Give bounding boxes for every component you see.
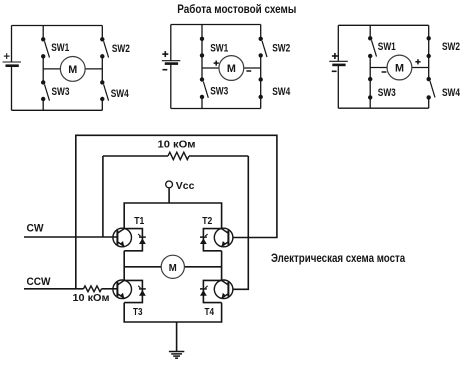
diode D3 (T3 flyback) — [124, 280, 142, 302]
wire branch bridge B left — [201, 25, 203, 39]
svg-text:M: M — [227, 63, 236, 75]
svg-text:CCW: CCW — [27, 276, 52, 288]
wire bottom rail bridge C — [338, 107, 428, 109]
wire branch bridge C right — [428, 25, 430, 38]
wire inner loop top right segment — [189, 155, 248, 157]
svg-text:SW3: SW3 — [210, 86, 228, 98]
svg-text:T1: T1 — [134, 215, 144, 227]
switch SW1 bridge A — [41, 37, 45, 41]
wire branch bridge A left — [42, 26, 44, 40]
diode D1 (T1 flyback) — [124, 229, 142, 251]
wire left column T1 emitter to T3 collector — [123, 251, 125, 281]
svg-text:SW4: SW4 — [111, 88, 130, 100]
wire outer loop (CCW up, across, down to T2 base) — [76, 135, 277, 288]
wire bottom rail (emitters T3-T4) — [124, 303, 221, 322]
transistor T2 — [214, 228, 233, 247]
battery bridge B — [170, 25, 172, 61]
wire top rail bridge A — [12, 25, 103, 27]
wire inner loop left (CW line up) — [102, 156, 104, 237]
resistor R2 10 kOm (CCW line) — [84, 286, 102, 292]
wire right column T2 emitter to T4 collector — [221, 251, 223, 281]
svg-text:T3: T3 — [133, 306, 143, 318]
switch SW4 bridge C — [427, 77, 431, 81]
svg-text:SW1: SW1 — [378, 41, 396, 53]
svg-text:Vcc: Vcc — [176, 180, 195, 192]
svg-text:Электрическая схема моста: Электрическая схема моста — [271, 253, 406, 265]
svg-text:SW2: SW2 — [112, 43, 130, 55]
svg-text:T4: T4 — [205, 306, 215, 318]
wire branch bridge B right — [260, 25, 262, 39]
transistor T4 — [214, 280, 233, 299]
wire top rail bridge C — [338, 24, 428, 26]
motor M bridge C — [370, 67, 387, 69]
wire inner loop top left segment — [103, 155, 168, 157]
svg-text:SW3: SW3 — [378, 87, 396, 99]
switch SW3 bridge A — [41, 80, 45, 84]
wire CW input to T1 base — [24, 236, 117, 238]
svg-text:M: M — [68, 64, 77, 76]
motor M bridge B — [202, 67, 219, 69]
battery bridge A — [11, 26, 13, 63]
svg-text:SW1: SW1 — [51, 42, 69, 54]
motor M bridge A — [43, 68, 60, 70]
svg-text:SW3: SW3 — [52, 86, 70, 98]
motor polarity labels bridge B — [214, 62, 219, 64]
switch SW4 bridge B — [259, 77, 263, 81]
wire branch bridge A right — [101, 26, 103, 40]
svg-text:CW: CW — [27, 223, 45, 235]
transistor T1 — [113, 228, 132, 247]
switch SW3 bridge B — [200, 77, 204, 81]
diode D4 (T4 flyback) — [203, 280, 221, 302]
switch SW3 bridge C — [368, 77, 372, 81]
motor polarity labels bridge C — [415, 61, 420, 63]
wire CCW input — [24, 288, 84, 290]
wire inner loop right (down to T4 base) — [233, 156, 248, 289]
switch SW1 bridge C — [368, 36, 372, 40]
switch SW2 bridge B — [259, 37, 263, 41]
switch SW1 bridge B — [200, 37, 204, 41]
wire top rail (collectors T1-T2) — [124, 203, 221, 229]
Vcc terminal — [166, 181, 173, 188]
wire top rail bridge B — [171, 24, 261, 26]
svg-text:SW2: SW2 — [272, 42, 290, 54]
ground — [176, 322, 178, 352]
switch SW2 bridge C — [427, 36, 431, 40]
svg-text:M: M — [395, 63, 404, 75]
svg-text:T2: T2 — [202, 215, 212, 227]
switch SW2 bridge A — [100, 37, 104, 41]
battery bridge C — [337, 25, 339, 61]
svg-text:SW4: SW4 — [272, 86, 291, 98]
switch SW4 bridge A — [100, 80, 104, 84]
svg-text:10 кОм: 10 кОм — [158, 138, 196, 150]
wire bottom rail bridge A — [12, 109, 103, 111]
resistor R1 10 kOm (top) — [168, 152, 189, 159]
svg-text:SW2: SW2 — [442, 41, 460, 53]
transistor T3 — [113, 280, 132, 299]
svg-text:SW1: SW1 — [210, 43, 228, 55]
diode D2 (T2 flyback) — [203, 229, 221, 251]
wire bottom rail bridge B — [171, 108, 261, 110]
wire branch bridge C left — [369, 25, 371, 38]
svg-text:M: M — [169, 262, 177, 274]
svg-text:10 кОм: 10 кОм — [73, 292, 110, 304]
motor M (bridge load) — [124, 266, 161, 268]
wire R2 to T3 base — [102, 288, 118, 290]
svg-text:SW4: SW4 — [442, 87, 461, 99]
svg-text:Работа мостовой схемы: Работа мостовой схемы — [177, 2, 296, 16]
